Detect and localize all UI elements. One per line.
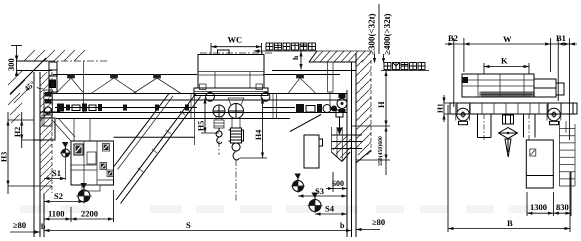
svg-text:H3: H3 bbox=[0, 152, 9, 162]
right corbel hatch bbox=[333, 135, 351, 158]
trolley inner lines bbox=[462, 74, 534, 97]
left wheel bracket bbox=[44, 90, 53, 115]
festoon triangle T1 bbox=[56, 75, 84, 94]
girder right end vertical bbox=[346, 94, 348, 119]
girder bottom line bbox=[44, 112, 347, 114]
trolley wheel right bbox=[261, 92, 270, 101]
girder top chord bbox=[44, 93, 347, 95]
rail under left wheel bbox=[459, 121, 468, 124]
trolley foot left bbox=[200, 84, 207, 90]
corner hatch strokes bbox=[8, 71, 25, 123]
dim H4 bbox=[240, 98, 267, 158]
wall face line 1 bbox=[351, 62, 353, 237]
svg-text:300: 300 bbox=[6, 58, 16, 71]
right corbel verticals bbox=[332, 127, 343, 161]
svg-text:B: B bbox=[507, 218, 513, 228]
wall outer line bbox=[33, 72, 35, 237]
hook hanger bbox=[503, 115, 514, 124]
girder lower edge line bbox=[56, 118, 290, 120]
cab window pane 4 bbox=[107, 170, 113, 177]
drive unit right bbox=[296, 104, 337, 113]
main hook block bbox=[229, 128, 244, 143]
left wheel bbox=[45, 107, 52, 114]
left wheel mid block bbox=[45, 99, 52, 104]
cab seat bbox=[87, 152, 96, 164]
aux block bbox=[214, 120, 224, 128]
svg-text:350(450)600: 350(450)600 bbox=[377, 136, 384, 166]
main ropes bbox=[232, 118, 240, 128]
wall hatch bottom cut bbox=[356, 150, 371, 163]
trolley bottom flange bbox=[194, 88, 268, 96]
gearbox right bbox=[534, 79, 564, 97]
cab hanger rods bbox=[74, 119, 90, 142]
trolley body bbox=[198, 55, 264, 89]
left leg centerline bbox=[483, 114, 485, 142]
svg-text:830: 830 bbox=[556, 202, 569, 212]
svg-text:H4: H4 bbox=[254, 130, 263, 140]
main sheave bbox=[229, 104, 244, 119]
drive unit left bbox=[57, 104, 102, 112]
outdoor label 室外用最高点 as glyph boxes bbox=[266, 43, 316, 50]
indoor ceiling line bbox=[272, 70, 356, 72]
main hook centerline bbox=[235, 160, 237, 201]
dim 1100 / 2200 bbox=[44, 190, 114, 222]
svg-text:WC: WC bbox=[228, 35, 243, 45]
stair rail 1 bbox=[116, 94, 196, 201]
svg-text:≥300(<32t): ≥300(<32t) bbox=[367, 13, 377, 55]
trolley corner block bbox=[462, 77, 468, 83]
dim S3 bbox=[298, 186, 347, 198]
svg-text:≥80: ≥80 bbox=[13, 220, 26, 230]
platform mark bbox=[530, 149, 536, 156]
cab window pane 3 bbox=[100, 163, 107, 170]
girder break marks right bbox=[273, 94, 277, 119]
dim 1300/830 bbox=[527, 172, 571, 216]
ceiling line left bbox=[16, 70, 52, 72]
dim B bbox=[448, 105, 570, 232]
trolley wheel left bbox=[206, 92, 215, 101]
rail under right wheel bbox=[550, 121, 559, 124]
wall right edge bbox=[370, 60, 372, 152]
trolley top cap bbox=[218, 50, 230, 55]
festoon triangle T2 bbox=[91, 75, 137, 94]
dim H3 bbox=[0, 112, 52, 194]
hook S3 bbox=[291, 174, 305, 194]
hanging box bbox=[304, 135, 323, 168]
left truck lower box bbox=[42, 115, 52, 126]
wall hatch band bbox=[356, 60, 371, 155]
aux rope bbox=[216, 117, 222, 120]
buffer arrow bbox=[337, 128, 343, 136]
drive shaft line bbox=[55, 107, 295, 109]
trolley body (end view) bbox=[462, 74, 534, 97]
festoon pendant wire bbox=[83, 61, 85, 112]
svg-text:K: K bbox=[501, 56, 508, 66]
corbel bottom line bbox=[34, 139, 55, 141]
dim S1 bbox=[44, 168, 66, 180]
svg-text:1100: 1100 bbox=[48, 209, 65, 219]
crane clearance line right bbox=[346, 90, 348, 237]
wheel left (end view) bbox=[457, 108, 470, 121]
cab inner frame bbox=[71, 141, 114, 185]
svg-text:W: W bbox=[503, 34, 512, 44]
dim B2/W/B1 bbox=[445, 33, 577, 140]
right leg centerline bbox=[528, 114, 530, 140]
ladder bbox=[559, 121, 575, 186]
wall face line 2 bbox=[355, 53, 357, 237]
girder rail seat line bbox=[44, 99, 347, 101]
svg-text:S1: S1 bbox=[52, 168, 61, 178]
roof slab bottom bbox=[309, 61, 356, 63]
right wheel top block bbox=[339, 94, 346, 98]
svg-text:S2: S2 bbox=[54, 191, 63, 201]
cab outer box bbox=[71, 141, 114, 185]
watermark row bbox=[20, 205, 536, 213]
svg-text:H2: H2 bbox=[13, 127, 22, 137]
stair stringer A line 1 bbox=[114, 94, 170, 168]
dim 600 bbox=[326, 172, 347, 192]
dim S bbox=[44, 220, 352, 232]
dim WC bbox=[211, 35, 262, 56]
drum band bbox=[480, 92, 533, 97]
aux hook bbox=[216, 128, 222, 144]
svg-text:H1: H1 bbox=[436, 103, 445, 113]
right corbel bottom taper bbox=[332, 152, 351, 162]
left leg bbox=[478, 114, 492, 138]
left wheel housing bbox=[456, 104, 470, 121]
dim 400(>32t) bbox=[382, 13, 392, 63]
cab bottom step bbox=[82, 185, 100, 191]
svg-text:2200: 2200 bbox=[81, 209, 98, 219]
hook S2 bbox=[77, 183, 92, 204]
45 deg label bbox=[22, 79, 43, 93]
trolley foot right bbox=[256, 84, 263, 90]
dim >=80 left bbox=[10, 220, 40, 234]
dim S2 bbox=[44, 191, 84, 203]
hook crossbeam diamond bbox=[499, 128, 518, 139]
45 deg second diagonal bbox=[14, 87, 30, 103]
hook S1 bbox=[60, 142, 71, 180]
roof line bbox=[16, 60, 48, 62]
crane highest point dash-dot bbox=[200, 52, 272, 54]
corbel box left bbox=[40, 118, 55, 140]
girder end taper bbox=[290, 115, 321, 132]
dim K bbox=[484, 56, 529, 75]
collector column bbox=[49, 62, 57, 92]
right corbel lines bbox=[332, 135, 363, 149]
svg-text:b: b bbox=[41, 222, 46, 231]
bridge girder band (end view) bbox=[450, 103, 577, 114]
hook blade (end view) bbox=[505, 139, 511, 157]
right collector column bbox=[328, 62, 334, 110]
roof hatch strokes bbox=[24, 50, 85, 61]
dim >=80 right bbox=[356, 217, 385, 231]
svg-text:b: b bbox=[340, 221, 345, 230]
truck frame below bbox=[44, 112, 75, 141]
cab window left bbox=[74, 144, 83, 155]
main sheave hanger bbox=[228, 98, 244, 105]
svg-text:≥400(>32t): ≥400(>32t) bbox=[382, 13, 392, 55]
right wheel bottom block bbox=[339, 109, 346, 113]
wheel right (end view) bbox=[548, 108, 561, 121]
dim 300(<32t) bbox=[367, 4, 380, 64]
shaft bearing 1 bbox=[123, 105, 127, 111]
drum dark band bbox=[481, 93, 532, 97]
platform box bbox=[526, 140, 553, 188]
dim H2 bbox=[13, 112, 44, 148]
trolley inner lines bbox=[198, 72, 264, 89]
buffer bbox=[336, 110, 343, 128]
indoor label underline bbox=[381, 70, 429, 72]
girder left end vertical bbox=[43, 94, 45, 119]
wall hatch dashed edge bbox=[51, 72, 53, 193]
dim H1 bbox=[436, 95, 451, 122]
festoon triangle T4 bbox=[288, 75, 316, 94]
svg-text:≥80: ≥80 bbox=[372, 217, 385, 227]
outdoor label underline + arrow bbox=[258, 50, 317, 52]
aux hook centerline bbox=[218, 141, 220, 155]
roof slab top edge bbox=[317, 50, 371, 52]
crane clearance line left bbox=[43, 193, 45, 237]
indoor label 室内最高点 bbox=[384, 63, 425, 70]
stair posts bbox=[138, 111, 185, 172]
festoon triangle T3 bbox=[133, 75, 181, 94]
dim 350(450)600 bbox=[356, 126, 390, 175]
cab window pane 2 bbox=[103, 144, 110, 152]
svg-text:B2: B2 bbox=[448, 33, 458, 43]
svg-text:B1: B1 bbox=[556, 33, 566, 43]
svg-text:1300: 1300 bbox=[530, 202, 547, 212]
rail top line left bbox=[40, 111, 60, 113]
roof slab left cut bbox=[309, 51, 317, 62]
hook S4 bbox=[308, 193, 323, 214]
stair stringer A line 2 bbox=[118, 96, 174, 170]
dim H5 bbox=[197, 98, 220, 133]
trolley flange line bbox=[194, 91, 268, 93]
right wheel housing bbox=[547, 104, 561, 121]
main hook bbox=[232, 143, 240, 160]
stair rail 2 bbox=[121, 97, 201, 204]
right end wheel hub bbox=[341, 102, 344, 105]
festoon rail line bbox=[53, 74, 340, 76]
aux sheave bbox=[213, 105, 225, 117]
walkway edge post bbox=[194, 119, 196, 146]
roof line dash-dot extension bbox=[48, 60, 108, 62]
dim h bbox=[291, 51, 303, 70]
dim S4 bbox=[315, 204, 347, 216]
roof slab hatch bbox=[313, 51, 371, 62]
wall hatch band bbox=[40, 72, 52, 193]
wall face line bbox=[39, 72, 41, 237]
svg-text:H5: H5 bbox=[197, 121, 206, 131]
right leg bbox=[524, 114, 536, 138]
shaft bearing 2 bbox=[155, 105, 159, 111]
walkway line under girder bbox=[114, 136, 196, 138]
right end wheel bbox=[337, 99, 347, 109]
dim 300 bbox=[6, 45, 22, 76]
svg-text:600: 600 bbox=[332, 179, 344, 188]
dim H bbox=[352, 71, 391, 127]
45 deg roof corner diagonal bbox=[10, 58, 46, 94]
svg-text:S: S bbox=[186, 220, 191, 230]
girder break marks left bbox=[191, 94, 195, 119]
svg-text:S4: S4 bbox=[325, 204, 335, 214]
svg-text:H: H bbox=[376, 101, 386, 108]
left wheel top block bbox=[45, 92, 52, 97]
shaft bearing 3 bbox=[185, 105, 189, 111]
